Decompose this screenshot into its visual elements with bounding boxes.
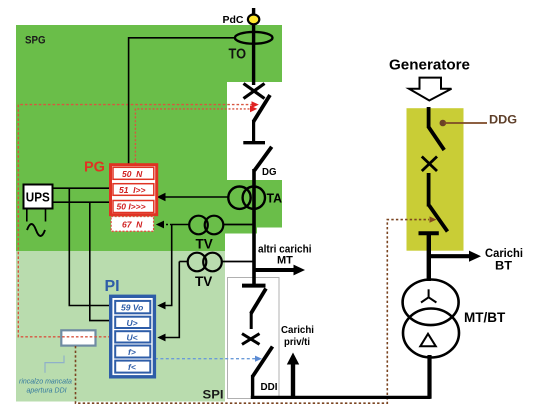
MT/BT transformer secondary <box>403 309 459 358</box>
wire junction to PI 59Vo row <box>69 188 111 305</box>
TV2 voltage transformer <box>188 253 222 272</box>
svg-text:priv/ti: priv/ti <box>284 336 310 348</box>
wire junction to PI U-great row <box>90 202 111 320</box>
star winding symbol <box>421 289 436 302</box>
67N relay box <box>111 217 154 232</box>
PI row U-great <box>115 317 150 328</box>
PG row 50I <box>113 201 154 213</box>
TO toroid <box>235 32 273 44</box>
svg-text:TA: TA <box>267 191 283 206</box>
DDI blade <box>253 347 273 377</box>
svg-text:50 I>>>: 50 I>>> <box>117 202 146 212</box>
svg-text:TV: TV <box>196 237 213 252</box>
svg-text:DDI: DDI <box>261 381 278 393</box>
DDG callout dot <box>440 120 447 127</box>
UPS box <box>24 185 53 209</box>
DDG generator zone (yellow) <box>407 108 464 251</box>
svg-text:DDG: DDG <box>489 115 517 127</box>
svg-text:PG: PG <box>84 160 105 176</box>
TO breaker cross <box>244 84 265 99</box>
callout step line <box>45 356 64 373</box>
PI row f-less <box>115 361 150 373</box>
DDG cross <box>422 157 437 172</box>
DG fixed contact bar <box>243 141 265 144</box>
blue dashed arrowhead <box>255 356 262 362</box>
MT bus from DG through TA down to DDI bar <box>252 169 256 284</box>
PG row 51 <box>113 184 154 196</box>
MT/BT transformer primary <box>403 280 459 326</box>
brown dashed backup trip path to DDG <box>76 220 430 404</box>
user bus <box>251 396 431 399</box>
SPI protection zone background <box>16 251 225 402</box>
PI relay box <box>111 296 155 377</box>
wire TV1 to MT bus <box>223 224 253 226</box>
wire TA to PG 51 row <box>159 196 228 198</box>
AC source sine <box>27 224 45 236</box>
DDI column fixed contact bar <box>242 284 266 288</box>
UPS output leads <box>26 209 28 222</box>
delta winding symbol <box>420 334 436 347</box>
svg-text:PdC: PdC <box>223 14 244 26</box>
brown dashed arrowhead at DDG <box>430 216 437 222</box>
white cutout near TV1 <box>225 234 292 252</box>
blue dashed PI trip to DDI <box>155 358 255 360</box>
svg-text:rincalzo mancata: rincalzo mancata <box>19 379 72 386</box>
wire TO toroid to PG relay <box>129 38 235 165</box>
svg-text:BT: BT <box>495 261 512 273</box>
wire between DDG poles <box>427 173 431 207</box>
svg-text:SPG: SPG <box>25 35 46 47</box>
wire generator incomer <box>427 107 431 128</box>
svg-text:UPS: UPS <box>26 190 50 205</box>
wire: MT incoming line from PdC <box>252 8 255 85</box>
DDG lower blade <box>429 206 447 232</box>
svg-text:MT: MT <box>277 255 293 267</box>
red dashed PI trip arrowhead <box>252 101 259 108</box>
svg-text:TO: TO <box>229 47 247 63</box>
wire TV2 to MT bus <box>222 261 253 263</box>
svg-text:f>: f> <box>128 347 136 357</box>
red dashed PG trip path to TO breaker <box>135 109 250 164</box>
svg-text:PI: PI <box>105 278 120 295</box>
svg-text:TV: TV <box>195 274 212 289</box>
PdC connection point <box>248 15 259 25</box>
arrowhead into PG 51 row <box>157 193 166 201</box>
DDG fixed contact bar <box>419 231 439 235</box>
wire TV2 to left elbow <box>179 261 187 263</box>
SPG protection zone background <box>16 25 282 251</box>
dotted arrow junction to 67N relay <box>158 224 172 226</box>
PI row 59Vo <box>115 301 150 313</box>
svg-text:U>: U> <box>127 318 138 328</box>
white cutout near altri carichi branch <box>257 228 292 252</box>
generator hollow arrow <box>409 78 452 101</box>
svg-text:MT/BT: MT/BT <box>464 310 506 325</box>
branch arrow altri carichi MT <box>253 268 296 272</box>
svg-text:apertura DDI: apertura DDI <box>27 387 67 394</box>
svg-text:59 Vo: 59 Vo <box>121 303 143 313</box>
PI row U-less <box>115 331 150 342</box>
svg-text:Carichi: Carichi <box>281 324 314 336</box>
wire DDG to transformer <box>427 233 431 281</box>
PG relay box <box>111 165 157 215</box>
PG row 50N <box>113 167 154 179</box>
DDI panel <box>228 278 280 399</box>
DG blade <box>254 147 271 171</box>
arrow carichi privati <box>291 363 295 397</box>
PI row f-great <box>115 346 150 358</box>
branch arrow Carichi BT <box>429 254 470 258</box>
wire DDI to user bus <box>251 375 254 399</box>
svg-text:Generatore: Generatore <box>389 57 470 73</box>
svg-text:DG: DG <box>262 166 277 178</box>
wire UPS to PG 50I row <box>53 201 111 203</box>
TA current transformer <box>228 187 265 209</box>
svg-text:Carichi: Carichi <box>485 248 523 260</box>
svg-text:67 N: 67 N <box>122 220 143 230</box>
wire below upper blade <box>250 312 253 329</box>
wire TV2 to PI U-less row <box>161 262 179 338</box>
red dashed PI trip path to TO breaker <box>18 105 252 337</box>
TV1 voltage transformer <box>189 216 223 235</box>
white panel behind TO/DG breakers <box>227 82 292 180</box>
TO breaker blade <box>253 95 270 122</box>
DDG callout line <box>444 122 487 124</box>
wire transformer to user bus <box>427 355 431 399</box>
svg-text:U<: U< <box>127 332 138 342</box>
DDG upper blade <box>429 127 445 150</box>
sectioning cross <box>242 334 260 345</box>
svg-text:51 I>>: 51 I>> <box>119 185 146 195</box>
svg-text:SPI: SPI <box>203 388 224 402</box>
wire TV1 junction to PI 59Vo row <box>161 225 172 306</box>
wire TV1 to junction <box>172 224 190 226</box>
wire below TO breaker <box>252 120 255 142</box>
wire UPS to PG 51 row <box>53 187 111 189</box>
svg-text:f<: f< <box>128 362 136 372</box>
red dashed PG trip arrowhead <box>250 106 257 113</box>
svg-text:50 N: 50 N <box>122 169 143 179</box>
DDI upper blade <box>251 289 266 314</box>
interface box (rincalzo) <box>61 330 95 345</box>
